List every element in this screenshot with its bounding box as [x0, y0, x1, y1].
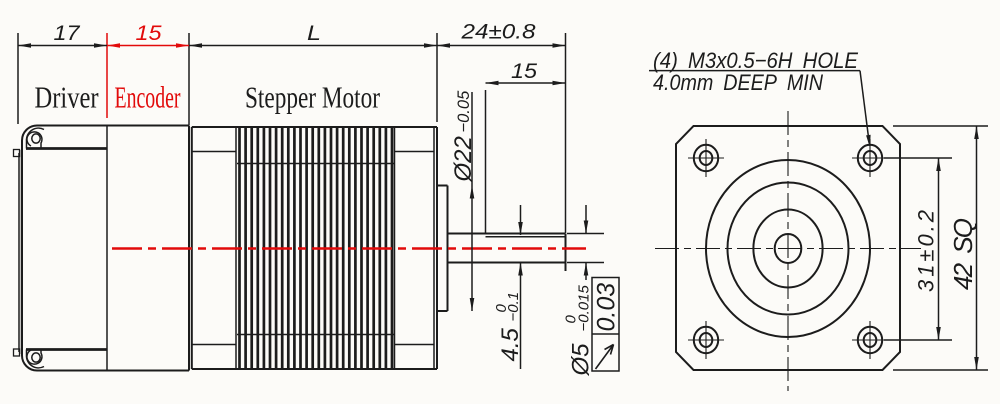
hole callout text line 1 [653, 48, 859, 73]
dimension 15 shaft line [486, 81, 566, 86]
extension line x=189 top [188, 33, 190, 125]
cover inner wall bottom line [26, 348, 107, 351]
dimension 24±0.8 text [460, 20, 535, 44]
dimension 31±0.2 text [914, 210, 939, 292]
bottom-left latch detail [27, 350, 42, 365]
rear end cap step line bottom [192, 344, 236, 346]
panel tab top [14, 150, 20, 157]
svg-text:−0.015: −0.015 [576, 285, 593, 332]
rear end cap step line top [192, 151, 236, 153]
hole callout leader [649, 71, 871, 148]
mounting hole bottom-right [852, 321, 888, 359]
front end cap step line top [395, 151, 435, 153]
motor silhouette top edge [192, 126, 437, 128]
shaft flat line [486, 236, 566, 238]
dimension Ø5 lower line [584, 263, 589, 281]
extension line x=107 (red) [106, 33, 108, 118]
svg-text:24±0.8: 24±0.8 [460, 20, 535, 44]
dimension 31±0.2 line [936, 158, 941, 340]
svg-text:Driver: Driver [35, 80, 100, 115]
extension line hole top [884, 157, 952, 159]
dimension 17 line [18, 43, 107, 48]
dimension 4.5 lower line [518, 263, 523, 370]
svg-text:−0.1: −0.1 [505, 292, 522, 322]
extension line hole bottom [884, 339, 952, 341]
runout feature control frame [592, 278, 619, 372]
label Encoder (red) [115, 80, 181, 115]
hole callout text line 2 [653, 70, 824, 95]
svg-text:17: 17 [54, 21, 81, 45]
runout symbol arrow [596, 345, 614, 370]
driver-encoder housing cover outline [22, 126, 189, 371]
flange square outline [676, 126, 900, 370]
rear cap / stator boundary [235, 127, 237, 369]
mounting hole bottom-left [688, 321, 724, 359]
driver/encoder divider line [106, 126, 108, 371]
stator winding line top [237, 163, 395, 165]
shaft top extension line [567, 233, 604, 235]
label Stepper Motor [245, 80, 381, 115]
pilot boss circle Ø22 [728, 183, 849, 315]
svg-text:4.0mm DEEP MIN: 4.0mm DEEP MIN [653, 70, 824, 95]
front end cap step line bottom [395, 344, 435, 346]
dimension 42 SQ line [974, 126, 979, 370]
left connector panel edge [19, 150, 22, 354]
svg-text:Encoder: Encoder [115, 80, 181, 115]
mounting hole top-right [852, 139, 888, 177]
svg-text:−0.05: −0.05 [455, 90, 473, 133]
shaft bottom extension line [567, 262, 604, 264]
dimension Ø22 text [450, 90, 477, 183]
cover inner corner arc top-left [26, 128, 44, 148]
stator / front cap boundary [394, 127, 396, 369]
extension line square bottom [893, 369, 988, 371]
dimension Ø22 line [470, 92, 475, 311]
cover inner wall top line [26, 147, 107, 150]
extension line x=18 [17, 33, 19, 124]
bearing boss circle [753, 210, 822, 288]
dimension 17 text [54, 21, 81, 45]
motor front face double line [434, 127, 437, 369]
svg-text:0.03: 0.03 [593, 283, 621, 332]
top-left latch detail [27, 132, 42, 149]
extension line x=485.5 [485, 90, 487, 234]
pilot boss outline [437, 186, 448, 312]
svg-text:15: 15 [136, 21, 163, 45]
svg-text:Stepper Motor: Stepper Motor [245, 80, 381, 115]
shaft bottom line [448, 262, 566, 264]
extension line square top [893, 125, 988, 127]
stator winding line bottom [237, 334, 395, 336]
dimension 24±0.8 line [437, 43, 566, 48]
cover inner corner arc bottom-left [26, 350, 44, 368]
dimension Ø5 text [563, 285, 595, 377]
runout tolerance 0.03 text [593, 283, 621, 332]
motor rear face double line [189, 126, 192, 371]
label Driver [35, 80, 100, 115]
shaft end line [565, 234, 567, 272]
dimension 15 text (red) [136, 21, 163, 45]
dimension 15 line (red) [107, 43, 189, 48]
dimension Ø5 upper line [584, 205, 589, 234]
dimension L line [189, 43, 437, 48]
shaft top line [448, 233, 566, 235]
motor silhouette bottom edge [192, 368, 437, 370]
dimension 15 shaft text [511, 59, 538, 83]
svg-text:42 SQ: 42 SQ [948, 218, 978, 290]
stator lamination hatch [240, 128, 393, 368]
dimension 42 SQ text [948, 218, 978, 290]
shaft circle Ø5 [775, 234, 802, 263]
motor body circle [706, 160, 870, 337]
extension line x=565.5 [565, 33, 567, 233]
svg-text:4.5: 4.5 [497, 327, 524, 361]
extension line x=437 [436, 33, 438, 122]
front view vertical centerline [787, 111, 789, 391]
dimension 4.5 text [493, 292, 524, 362]
svg-text:L: L [307, 21, 321, 45]
panel tab bottom [14, 349, 20, 356]
centerline side view (red dash-dot) [112, 247, 586, 250]
svg-text:Ø5: Ø5 [568, 343, 595, 377]
svg-text:Ø22: Ø22 [450, 136, 477, 182]
dimension L text [307, 21, 321, 45]
svg-text:31±0.2: 31±0.2 [914, 210, 939, 292]
dimension 4.5 upper line [518, 205, 523, 235]
svg-text:15: 15 [511, 59, 538, 83]
front view horizontal centerline [655, 248, 921, 250]
mounting hole top-left [688, 139, 724, 177]
